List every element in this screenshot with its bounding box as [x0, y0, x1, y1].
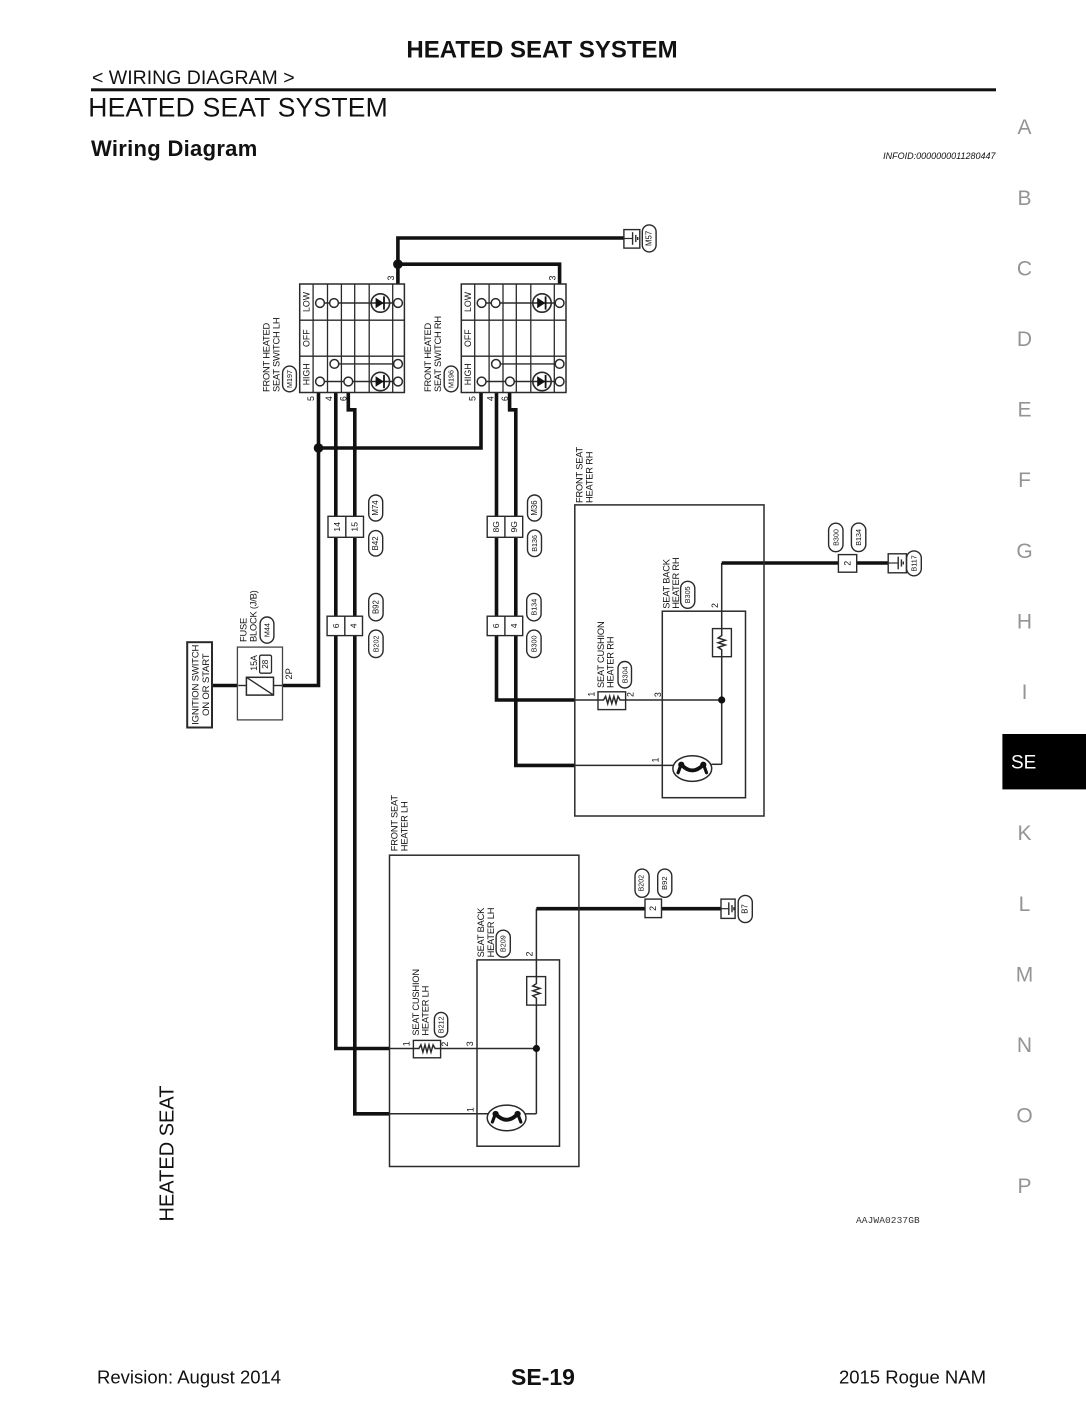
svg-text:O: O	[1016, 1105, 1032, 1128]
svg-text:K: K	[1017, 822, 1031, 845]
svg-text:2: 2	[525, 952, 535, 957]
svg-text:SEAT CUSHION: SEAT CUSHION	[411, 969, 421, 1035]
wire: LH pin6 to seat back heater LH	[348, 393, 488, 1114]
svg-text:B202: B202	[639, 875, 646, 891]
svg-text:HIGH: HIGH	[302, 363, 312, 385]
svg-text:HEATER LH: HEATER LH	[399, 802, 409, 852]
subsection title	[91, 136, 258, 161]
wire: seat back heater RH pin2 to ground B117	[722, 563, 889, 629]
svg-text:2: 2	[648, 906, 658, 911]
svg-text:B209: B209	[499, 935, 508, 952]
svg-text:HEATER RH: HEATER RH	[585, 452, 595, 503]
svg-text:B: B	[1017, 187, 1031, 210]
svg-text:B304: B304	[620, 666, 629, 683]
svg-text:HEATED SEAT: HEATED SEAT	[157, 1086, 179, 1222]
svg-text:15A: 15A	[249, 655, 259, 671]
infoid	[883, 151, 996, 161]
connector B212	[434, 1012, 447, 1037]
svg-text:G: G	[1016, 540, 1032, 563]
fuse 15A #28	[238, 655, 282, 695]
svg-text:SEAT BACK: SEAT BACK	[476, 907, 486, 958]
pin labels M196	[468, 275, 558, 401]
svg-text:2: 2	[710, 603, 720, 608]
figure code	[856, 1215, 920, 1226]
wire: RH heater internal node	[626, 657, 722, 765]
wire: RH pin4 to seat cushion heater RH	[497, 393, 599, 701]
svg-text:Revision: August 2014: Revision: August 2014	[97, 1367, 281, 1388]
connector B300 (ground run RH)	[829, 523, 843, 552]
svg-text:B134: B134	[854, 529, 863, 546]
wire: LH heater internal node	[440, 1006, 536, 1114]
junction pin3 net	[393, 259, 403, 269]
seat back heater RH element	[713, 629, 732, 657]
svg-text:N: N	[1017, 1034, 1032, 1057]
svg-text:FRONT HEATED: FRONT HEATED	[261, 322, 271, 392]
svg-text:HIGH: HIGH	[463, 363, 473, 385]
wire: seat back heater LH pin2 to ground B7	[536, 909, 721, 977]
wire: ignition switch to fuse	[212, 684, 238, 688]
svg-text:SEAT CUSHION: SEAT CUSHION	[596, 622, 606, 688]
label FUSE BLOCK (J/B)	[238, 590, 258, 642]
breadcrumb	[92, 67, 295, 89]
svg-text:4: 4	[349, 623, 359, 628]
svg-text:M: M	[1016, 963, 1034, 986]
svg-text:FRONT HEATED: FRONT HEATED	[423, 322, 433, 392]
svg-text:28: 28	[261, 659, 270, 669]
footer page number	[511, 1364, 575, 1390]
M196 LOW contacts	[477, 294, 564, 312]
svg-text:OFF: OFF	[302, 329, 312, 347]
switch body M196	[461, 284, 566, 393]
svg-text:L: L	[1019, 893, 1031, 916]
margin index letters	[1016, 116, 1034, 1198]
rotated page label HEATED SEAT	[157, 1086, 179, 1222]
svg-text:1: 1	[587, 692, 597, 697]
connector M36/B136 pins 8G,9G	[487, 516, 523, 537]
M197 HIGH row1 contacts	[330, 360, 402, 369]
svg-text:H: H	[1017, 610, 1032, 633]
svg-text:AAJWA0237GB: AAJWA0237GB	[856, 1215, 920, 1226]
svg-text:8G: 8G	[491, 521, 501, 533]
M197 HIGH row2 contacts	[316, 372, 403, 390]
svg-text:B7: B7	[741, 904, 750, 914]
svg-text:SEAT SWITCH LH: SEAT SWITCH LH	[272, 318, 282, 392]
label SEAT BACK HEATER RH	[661, 558, 681, 609]
connector B134	[527, 593, 541, 621]
thermostat LH	[487, 1105, 526, 1131]
svg-text:P: P	[1017, 1175, 1031, 1198]
seat cushion heater LH element	[413, 1040, 440, 1057]
M196 HIGH row2 contacts	[477, 372, 564, 390]
svg-text:SEAT SWITCH RH: SEAT SWITCH RH	[433, 316, 443, 392]
svg-text:B300: B300	[831, 529, 840, 546]
page header title	[406, 37, 677, 64]
connector B202	[369, 630, 383, 658]
svg-text:B305: B305	[683, 586, 692, 603]
section title	[88, 93, 388, 123]
svg-text:C: C	[1017, 257, 1032, 280]
connector B136	[528, 530, 542, 557]
svg-text:4: 4	[324, 396, 334, 401]
svg-text:FRONT SEAT: FRONT SEAT	[389, 795, 399, 852]
pin labels cushion LH	[401, 1041, 475, 1046]
junction LH heater node	[533, 1045, 540, 1052]
svg-text:A: A	[1017, 116, 1031, 139]
svg-text:6: 6	[500, 396, 510, 401]
fuse block J/B box	[237, 647, 282, 720]
wire: power from fuse up to LH switch pin5	[283, 393, 319, 686]
seat back heater LH element	[527, 977, 546, 1006]
svg-text:14: 14	[332, 522, 342, 532]
svg-text:9G: 9G	[509, 521, 519, 533]
label FRONT HEATED SEAT SWITCH RH	[423, 316, 443, 392]
ground M57	[624, 225, 656, 252]
svg-text:M44: M44	[263, 623, 272, 637]
connector B92	[369, 593, 383, 621]
connector B305	[681, 581, 695, 608]
header rule	[91, 88, 996, 91]
svg-text:< WIRING DIAGRAM >: < WIRING DIAGRAM >	[92, 67, 295, 89]
ignition switch ON OR START	[187, 642, 212, 727]
wire: LH pin4 to seat cushion heater LH	[336, 393, 414, 1049]
svg-text:INFOID:0000000011280447: INFOID:0000000011280447	[883, 151, 996, 161]
svg-text:2: 2	[843, 561, 853, 566]
connector B92 (ground run LH)	[658, 869, 672, 897]
svg-text:B92: B92	[371, 600, 380, 614]
connector B209	[496, 930, 510, 957]
svg-text:ON OR START: ON OR START	[201, 653, 212, 716]
front seat heater LH box	[390, 855, 579, 1166]
connector M197	[283, 366, 297, 392]
svg-text:2: 2	[440, 1042, 450, 1047]
svg-text:2015 Rogue NAM: 2015 Rogue NAM	[839, 1367, 986, 1388]
front seat heater RH box	[575, 505, 764, 816]
svg-text:HEATED SEAT SYSTEM: HEATED SEAT SYSTEM	[88, 93, 388, 123]
svg-text:6: 6	[338, 396, 348, 401]
svg-text:HEATER RH: HEATER RH	[606, 637, 616, 688]
svg-text:HEATER LH: HEATER LH	[421, 986, 431, 1036]
thermostat RH	[673, 756, 712, 782]
inline connector pin 2 (LH ground)	[645, 899, 662, 918]
svg-text:B212: B212	[437, 1016, 446, 1033]
svg-text:SEAT BACK: SEAT BACK	[661, 558, 671, 609]
wire: branch to RH switch pin3	[398, 264, 560, 284]
label SEAT BACK HEATER LH	[476, 907, 496, 958]
svg-text:B92: B92	[660, 876, 669, 890]
svg-text:LOW: LOW	[302, 291, 312, 312]
svg-text:M74: M74	[371, 500, 380, 516]
connector B134/B300 pins 6,4	[487, 616, 523, 635]
svg-text:F: F	[1018, 469, 1031, 492]
connector M44	[260, 617, 274, 643]
pin labels seat back LH	[466, 952, 535, 1113]
svg-text:HEATER LH: HEATER LH	[486, 908, 496, 958]
connector M74/B42 pins 14,15	[328, 516, 364, 537]
wire: branch to RH switch pin5	[319, 393, 482, 449]
svg-text:M57: M57	[645, 231, 654, 246]
wire: RH pin6 to seat back heater RH	[510, 393, 674, 766]
svg-text:E: E	[1017, 399, 1031, 422]
wire: switches pin3 to ground M57	[398, 238, 624, 284]
inline connector pin 2 (RH ground)	[838, 555, 856, 573]
svg-text:IGNITION SWITCH: IGNITION SWITCH	[191, 644, 202, 724]
svg-text:LOW: LOW	[463, 291, 473, 312]
seat back heater RH box	[662, 611, 745, 798]
label FRONT SEAT HEATER LH	[389, 795, 409, 852]
svg-text:B300: B300	[529, 636, 538, 653]
svg-text:4: 4	[509, 623, 519, 628]
svg-text:B117: B117	[910, 555, 919, 571]
svg-text:6: 6	[491, 623, 501, 628]
seat cushion heater LH labels	[411, 969, 431, 1035]
pin labels cushion RH	[587, 692, 663, 698]
SE tab	[1002, 734, 1086, 789]
pin labels seat back RH	[651, 603, 721, 763]
svg-text:M196: M196	[447, 370, 456, 388]
footer model	[839, 1367, 986, 1388]
connector B134 (ground run RH)	[851, 523, 865, 552]
svg-text:M197: M197	[285, 370, 294, 388]
connector M196	[444, 366, 458, 392]
M196 HIGH row1 contacts	[492, 360, 564, 369]
svg-text:B136: B136	[530, 535, 539, 552]
connector B300	[527, 630, 541, 658]
svg-text:D: D	[1017, 328, 1032, 351]
svg-text:B42: B42	[371, 536, 380, 550]
svg-text:HEATED SEAT SYSTEM: HEATED SEAT SYSTEM	[406, 37, 677, 64]
svg-text:4: 4	[486, 396, 496, 401]
svg-text:HEATER RH: HEATER RH	[671, 558, 681, 609]
seat cushion heater RH labels	[596, 622, 616, 688]
svg-text:1: 1	[401, 1041, 411, 1046]
svg-text:B202: B202	[371, 636, 380, 653]
svg-text:2: 2	[625, 692, 635, 697]
svg-text:6: 6	[331, 623, 341, 628]
seat back heater LH box	[477, 960, 560, 1146]
svg-text:Wiring Diagram: Wiring Diagram	[91, 136, 258, 161]
connector B92/B202 pins 6,4	[327, 616, 362, 635]
connector B202 (ground run LH)	[635, 869, 649, 897]
svg-text:SE-19: SE-19	[511, 1364, 575, 1390]
svg-text:15: 15	[350, 522, 360, 532]
svg-text:M36: M36	[530, 500, 539, 515]
pin label 2P	[284, 668, 294, 679]
label FRONT SEAT HEATER RH	[575, 446, 595, 503]
junction RH heater node	[718, 696, 725, 703]
pin labels M197	[306, 275, 396, 401]
svg-text:3: 3	[386, 275, 396, 280]
M197 LOW contacts	[316, 294, 403, 312]
ground B7	[721, 895, 752, 922]
svg-text:1: 1	[651, 757, 661, 762]
svg-text:3: 3	[465, 1041, 475, 1046]
connector B42	[369, 531, 383, 557]
svg-text:3: 3	[548, 275, 558, 280]
svg-text:5: 5	[306, 396, 316, 401]
junction power net	[314, 443, 324, 453]
svg-text:B134: B134	[529, 599, 538, 616]
footer revision	[97, 1367, 281, 1388]
switch body M197	[300, 284, 405, 393]
svg-text:2P: 2P	[284, 668, 294, 679]
svg-text:3: 3	[653, 692, 663, 697]
svg-text:SE: SE	[1011, 753, 1036, 774]
connector B304	[618, 662, 632, 689]
connector M74	[369, 495, 383, 521]
svg-text:1: 1	[466, 1107, 476, 1112]
svg-text:OFF: OFF	[463, 329, 473, 347]
svg-text:FRONT SEAT: FRONT SEAT	[575, 446, 585, 503]
svg-text:FUSE: FUSE	[238, 618, 248, 642]
label FRONT HEATED SEAT SWITCH LH	[261, 318, 281, 392]
connector M36	[528, 495, 542, 521]
svg-text:BLOCK (J/B): BLOCK (J/B)	[249, 590, 259, 642]
ground B117	[888, 551, 921, 576]
svg-text:5: 5	[468, 396, 478, 401]
seat cushion heater RH element	[598, 692, 626, 710]
svg-text:I: I	[1022, 681, 1028, 704]
